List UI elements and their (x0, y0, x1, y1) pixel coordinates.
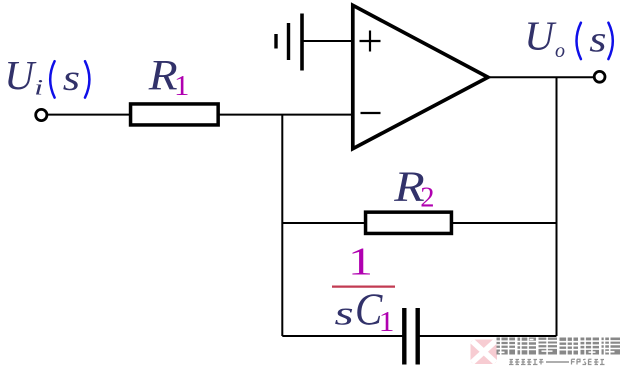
svg-text:U: U (4, 52, 37, 98)
svg-text:i: i (34, 74, 43, 99)
wire (490, 76, 595, 78)
watermark logo (471, 340, 498, 365)
output terminal Uo (594, 71, 605, 82)
label 1/sC1 value (332, 239, 395, 338)
wire (219, 114, 353, 116)
svg-text:1: 1 (174, 71, 189, 101)
label R2 (393, 164, 434, 213)
watermark subtitle text (509, 359, 605, 364)
wire (282, 335, 403, 337)
svg-text:s: s (589, 19, 606, 60)
label Ui(s) (4, 52, 89, 99)
svg-text:1: 1 (348, 239, 373, 283)
op-amp plus pin (360, 31, 381, 52)
op-amp U1 (353, 5, 488, 148)
wire (302, 40, 352, 42)
wire (556, 77, 558, 336)
svg-text:U: U (524, 13, 557, 59)
op-amp minus pin (361, 112, 381, 114)
label Uo(s) (524, 13, 613, 62)
svg-text:2: 2 (420, 183, 434, 214)
wire (47, 114, 132, 116)
wire (419, 335, 557, 337)
wire (282, 222, 366, 224)
input terminal Ui (36, 109, 47, 120)
watermark title text (497, 338, 621, 355)
svg-text:s: s (63, 58, 80, 99)
label R1 (148, 51, 190, 102)
ground (276, 14, 302, 71)
svg-text:s: s (335, 295, 354, 333)
svg-text:o: o (555, 40, 565, 62)
resistor R2 (366, 212, 452, 233)
wire (452, 222, 557, 224)
resistor R1 (131, 104, 219, 125)
wire (281, 115, 283, 336)
capacitor C1 (404, 308, 417, 365)
svg-text:1: 1 (379, 306, 395, 337)
